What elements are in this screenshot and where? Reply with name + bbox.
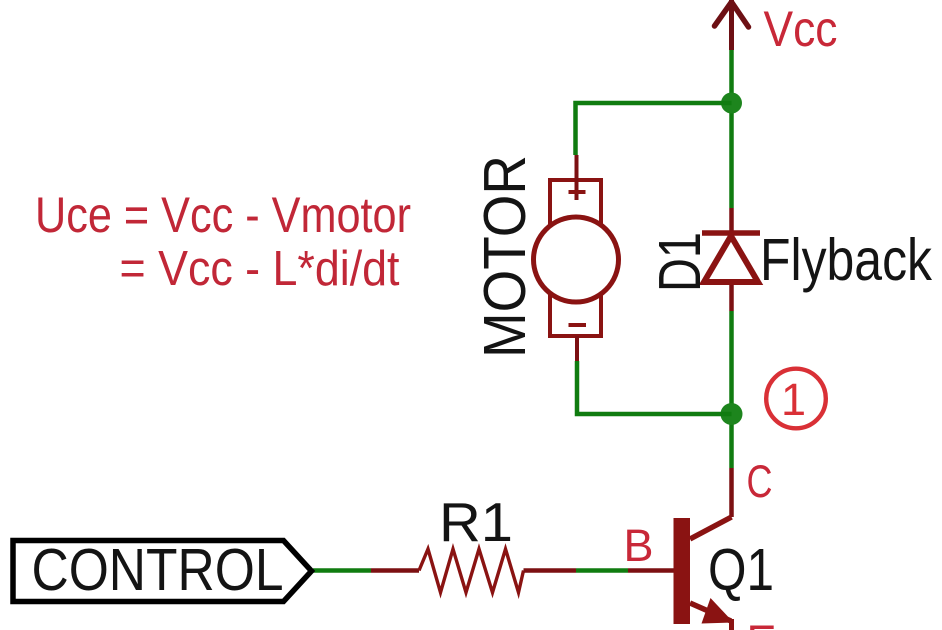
svg-text:D1: D1	[647, 232, 713, 292]
svg-text:Vcc: Vcc	[764, 1, 838, 57]
svg-text:B: B	[624, 520, 654, 571]
svg-text:1: 1	[781, 374, 806, 425]
svg-text:E: E	[747, 616, 777, 630]
svg-text:= Vcc - L*di/dt: = Vcc - L*di/dt	[120, 242, 400, 296]
svg-text:CONTROL: CONTROL	[32, 537, 284, 603]
svg-text:Uce = Vcc - Vmotor: Uce = Vcc - Vmotor	[35, 187, 411, 243]
svg-text:Flyback: Flyback	[760, 227, 932, 293]
svg-text:MOTOR: MOTOR	[472, 155, 538, 358]
svg-text:R1: R1	[439, 491, 513, 553]
svg-text:Q1: Q1	[708, 537, 774, 603]
svg-text:C: C	[747, 456, 773, 507]
